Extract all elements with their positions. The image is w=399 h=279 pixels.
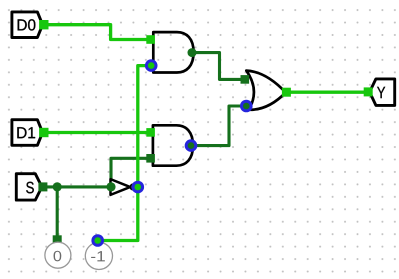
wire end square at S output	[38, 182, 47, 191]
wire end square at AND1 upper input	[146, 35, 155, 44]
wire AND2 output to OR lower input (dark)	[191, 106, 246, 146]
junction dot at AND1 output	[188, 48, 197, 57]
wire end square at probe 0 input	[53, 235, 62, 244]
probe -1 value text	[91, 251, 105, 261]
wire D0 to AND1 upper input (bright, value 1)	[43, 25, 151, 40]
wire AND1 output to OR upper input (dark)	[192, 53, 245, 80]
wire NOT output down to probe -1 (bright)	[98, 187, 138, 241]
input pin S	[16, 174, 42, 200]
node at AND2 output (blue ring)	[186, 141, 196, 151]
node at AND1 lower input (blue ring)	[146, 61, 156, 71]
wire S branch up to AND2 lower input	[111, 158, 151, 187]
wire S to NOT input (dark, value 0)	[42, 185, 112, 188]
wire end square at AND2 lower input	[146, 154, 155, 163]
probe circle value 0	[45, 242, 71, 268]
not gate bubble	[130, 184, 135, 189]
wire OR output to Y (bright)	[286, 91, 368, 94]
wire end square at AND2 upper input	[146, 128, 155, 137]
wire end square at D1 output	[39, 128, 48, 137]
input pin D1	[12, 120, 43, 146]
wire NOT output up to AND1 lower input (bright)	[138, 66, 151, 187]
junction dot on S wire	[53, 182, 62, 191]
or gate U3	[246, 71, 285, 110]
not gate U4	[111, 179, 131, 195]
and gate U1 (top)	[153, 32, 193, 72]
wire end square at OR upper input	[241, 75, 250, 84]
probe circle value -1	[85, 242, 112, 269]
node at OR lower input (blue ring)	[242, 101, 252, 111]
label D0	[18, 19, 36, 30]
wire end square at D0 output	[39, 20, 48, 29]
probe 0 value text	[54, 251, 62, 262]
node at NOT output (blue ring)	[133, 182, 143, 192]
label D1	[17, 127, 35, 138]
wire end square at Y input	[364, 87, 373, 96]
and gate U2 (bottom)	[153, 125, 193, 165]
wire D1 to AND2 upper input (bright)	[43, 131, 151, 134]
node above probe -1 (blue ring)	[93, 236, 103, 246]
label S	[26, 182, 34, 194]
input pin D0	[12, 12, 43, 38]
wire S branch down to probe 0	[56, 187, 59, 240]
junction dot at NOT input	[106, 182, 115, 191]
wire end square at OR output	[282, 88, 291, 97]
output pin Y	[370, 79, 395, 106]
label Y	[377, 87, 385, 98]
